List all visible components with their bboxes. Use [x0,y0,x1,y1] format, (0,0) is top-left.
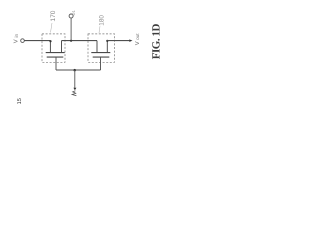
svg-text:15: 15 [17,98,23,104]
junction dot at M2 source / wire [106,40,108,42]
transistor M1 channel bar [46,52,65,54]
arrowhead Vout [129,39,132,42]
label control signal (chevron glyphs) [73,91,76,93]
transistor M2 gate stub [100,57,102,70]
svg-text:180: 180 [98,15,105,26]
svg-text:FIG. 1D: FIG. 1D [151,23,163,59]
svg-text:Vin: Vin [14,33,20,43]
svg-text:170: 170 [50,10,57,21]
svg-text:Vout: Vout [135,33,141,45]
transistor M1 source stub [61,41,63,53]
transistor M2 drain stub [96,41,98,53]
wire common gate bus [56,69,101,71]
node phi terminal circle [69,14,73,18]
leader line for 170 [51,23,53,33]
node Vout terminal label [135,33,141,45]
arrowhead control terminal [73,88,76,91]
junction dot mid node [70,40,72,42]
transistor M2 gate bar [93,56,110,58]
box 170 (dashed enclosure) [42,34,65,62]
wire Vin to transistor 170 drain [24,40,50,42]
box 180 (dashed enclosure) [88,34,115,62]
transistor M1 gate stub [55,57,57,70]
wire M1 source to M2 drain (mid node) [62,40,98,42]
transistor M1 gate bar [47,56,64,58]
wire gate bus down to control terminal [74,70,76,88]
transistor M2 channel bar [91,52,110,54]
node Vin terminal label [14,33,20,43]
junction dot gate bus [73,69,76,72]
junction dot at M1 drain / wire [49,40,51,42]
leader line for 180 [99,26,100,33]
transistor M2 source stub [106,41,108,53]
node Vin terminal circle [21,39,25,43]
transistor M1 drain stub [49,41,51,53]
svg-text:Φ1: Φ1 [71,9,76,15]
wire M2 source to Vout [107,40,129,42]
wire mid node up to phi terminal [70,18,72,40]
